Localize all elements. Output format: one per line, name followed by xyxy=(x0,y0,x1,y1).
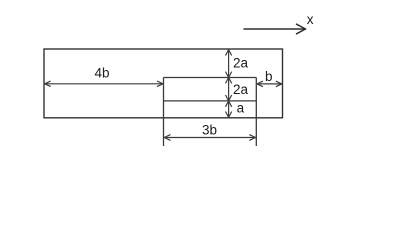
arrowhead pair at inner top xyxy=(226,72,229,78)
x-axis arrow xyxy=(244,24,306,34)
inner rectangle (cutout) top edge xyxy=(164,77,257,79)
arrowhead pair at inner bottom xyxy=(226,95,229,101)
vertical dimension line (2a / 2a / a) xyxy=(226,50,232,118)
svg-text:4b: 4b xyxy=(95,66,110,81)
dimension 3b: double arrow below, between extension lines xyxy=(164,135,255,141)
svg-text:3b: 3b xyxy=(202,123,217,138)
svg-text:b: b xyxy=(265,69,273,84)
arrowhead up at outer top xyxy=(226,50,229,56)
outer rectangle (beam cross-section outline) xyxy=(44,49,283,118)
dimension 4b: double arrow from outer left edge to inner left edge xyxy=(45,81,163,87)
svg-text:x: x xyxy=(307,12,314,27)
inner rectangle left side + extension line down to 3b dimension xyxy=(163,78,165,147)
arrowhead down at outer bottom xyxy=(226,112,229,118)
dimension b: double arrow from inner right edge to outer right edge xyxy=(257,81,282,87)
svg-text:a: a xyxy=(237,101,245,116)
svg-text:2a: 2a xyxy=(233,82,249,97)
inner rectangle right side + extension line down to 3b dimension xyxy=(255,78,257,147)
svg-text:2a: 2a xyxy=(233,56,249,71)
inner rectangle bottom edge xyxy=(164,100,257,102)
